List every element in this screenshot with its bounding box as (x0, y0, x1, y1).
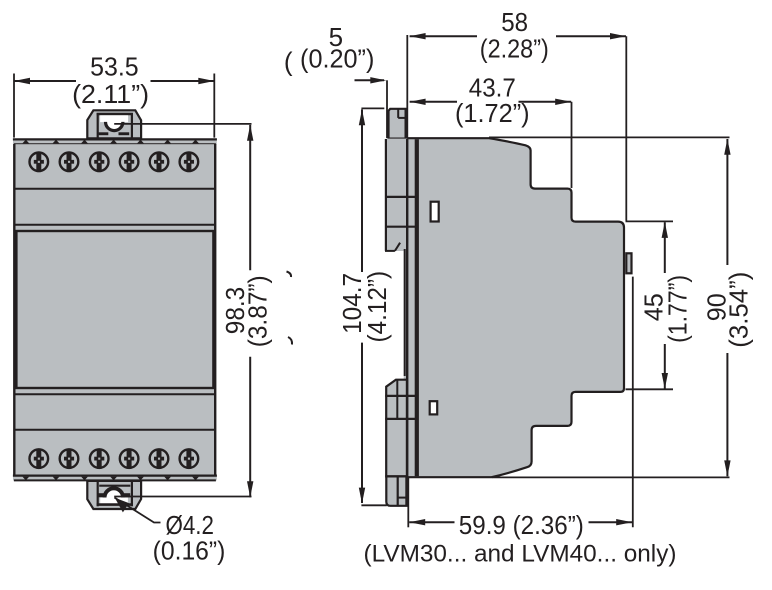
front body bottom strip with vent carets (13, 476, 217, 481)
rear flange lower plate (386, 380, 407, 477)
front bottom mounting tab (87, 481, 141, 509)
terminal screws bottom row (30, 449, 199, 469)
rear flange upper plate (385, 139, 407, 251)
svg-text:59.9 (2.36”): 59.9 (2.36”) (459, 510, 584, 540)
svg-text:(1.77”): (1.77”) (662, 275, 692, 343)
svg-text:58: 58 (501, 7, 528, 37)
front panel frame (16, 231, 213, 388)
side vent slot upper (431, 202, 439, 222)
dim 90 bottom extension (continues body bottom edge) (492, 476, 730, 478)
side body thick left edge (415, 139, 419, 476)
stray tick marks (287, 272, 292, 278)
svg-text:(0.20”): (0.20”) (300, 43, 374, 73)
svg-text:(2.28”): (2.28”) (480, 34, 549, 64)
front body (14, 144, 215, 475)
side body stepped profile (407, 138, 624, 477)
dim 104.7 line (361, 109, 363, 272)
dim 45 extension lines (626, 220, 674, 222)
dim 90 line (726, 139, 728, 265)
dim 5 leader (355, 79, 385, 81)
svg-text:(: ( (284, 47, 293, 77)
terminal block separator lines (15, 188, 214, 190)
dim 90 top extension (continues body top edge) (489, 136, 730, 138)
side front sealable tab (626, 253, 631, 273)
svg-text:53.5: 53.5 (90, 52, 139, 82)
side vent slot lower (430, 401, 438, 414)
svg-text:(1.72”): (1.72”) (455, 98, 530, 128)
dim 58 right extension (625, 36, 627, 221)
dim 59.9 extension lines (407, 478, 409, 527)
front top mounting tab (87, 110, 141, 138)
svg-text:(3.87”): (3.87”) (243, 275, 273, 347)
svg-text:(4.12”): (4.12”) (362, 271, 392, 343)
dim 53.5 extension lines (13, 74, 15, 138)
DIN rail grip lines upper (385, 196, 416, 198)
svg-text:(LVM30... and LVM40... only): (LVM30... and LVM40... only) (364, 541, 677, 568)
dim 58 line (410, 35, 477, 37)
FRONT VIEW (13, 110, 217, 509)
SIDE VIEW (385, 109, 632, 506)
front body top strip with vent carets (13, 139, 217, 144)
dim 59.9 line (409, 521, 454, 523)
rear flange upper tab (389, 109, 406, 139)
svg-text:(0.16”): (0.16”) (153, 536, 226, 566)
rear flange narrow mid strip (404, 243, 409, 380)
dim 104.7 extension lines (361, 107, 384, 109)
dim 58/43.7 left extension (406, 35, 408, 138)
terminal screws top row (30, 152, 199, 172)
svg-text:(2.11”): (2.11”) (72, 79, 149, 109)
leader dia 4.2 (114, 498, 160, 523)
dim 45 line (664, 222, 666, 273)
rear flange spring foot (386, 476, 406, 505)
dim 43.7 line (410, 101, 457, 103)
dim 53.5 line (14, 80, 76, 82)
rear flange right edge (406, 139, 408, 476)
dim 98.3 extension lines (114, 123, 251, 125)
dim 98.3 line (249, 125, 251, 270)
svg-text:(3.54”): (3.54”) (724, 272, 754, 348)
DIMENSIONS (14, 33, 731, 527)
dim 43.7 right extension (571, 102, 573, 188)
DIN rail grip lines lower (385, 395, 416, 397)
